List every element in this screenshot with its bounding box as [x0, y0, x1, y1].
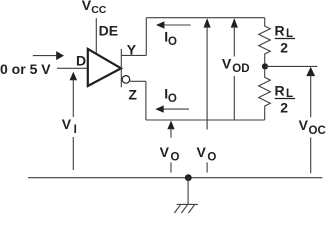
- svg-text:V: V: [299, 117, 309, 133]
- svg-text:2: 2: [280, 39, 288, 55]
- resistor RL/2 bottom: [259, 70, 271, 120]
- svg-text:R: R: [275, 82, 285, 98]
- wire output pin bar: [120, 49, 122, 87]
- svg-text:V: V: [62, 116, 72, 132]
- wire Z output: [130, 81, 265, 120]
- ground: [174, 178, 198, 213]
- svg-text:0 or 5 V: 0 or 5 V: [0, 61, 51, 77]
- arrow VO left measurement: [167, 121, 174, 130]
- op-amp U1 driver triangle: [88, 49, 121, 86]
- arrow VO right measurement line: [204, 18, 211, 28]
- wire junction to VOC arrow: [265, 65, 317, 67]
- svg-text:CC: CC: [91, 4, 107, 16]
- arrow IO bottom: [162, 108, 190, 110]
- svg-text:O: O: [207, 151, 216, 163]
- wire Y output: [121, 18, 264, 56]
- arrow input direction: [33, 55, 57, 57]
- wire D input: [57, 67, 88, 69]
- wire VCC lead into driver: [95, 18, 97, 54]
- svg-text:O: O: [171, 151, 180, 163]
- arrow VOD measurement line: [231, 18, 238, 28]
- node center tap junction: [262, 63, 268, 69]
- svg-text:I: I: [74, 124, 77, 136]
- svg-text:D: D: [76, 52, 86, 68]
- arrow IO top: [162, 24, 191, 26]
- node ground junction: [185, 174, 192, 181]
- arrow VOC measurement: [306, 67, 315, 76]
- svg-text:DE: DE: [99, 22, 118, 38]
- arrow VI measurement: [70, 72, 78, 81]
- svg-text:2: 2: [280, 99, 288, 115]
- svg-text:O: O: [168, 93, 177, 105]
- svg-text:V: V: [222, 55, 232, 71]
- bubble inverting output: [122, 76, 130, 84]
- svg-text:V: V: [197, 144, 207, 160]
- svg-text:V: V: [160, 144, 170, 160]
- svg-text:Z: Z: [128, 86, 137, 102]
- wire ground rail: [28, 177, 322, 179]
- svg-text:R: R: [275, 22, 285, 38]
- svg-text:OC: OC: [309, 125, 326, 137]
- resistor RL/2 top: [259, 18, 271, 64]
- svg-text:OD: OD: [232, 63, 249, 75]
- svg-text:O: O: [168, 36, 177, 48]
